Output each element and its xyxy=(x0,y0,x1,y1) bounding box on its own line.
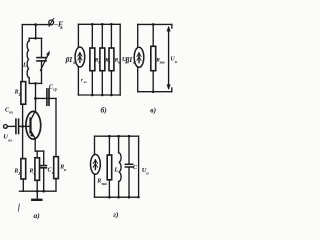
svg-text:г): г) xyxy=(113,210,119,219)
svg-text:вх: вх xyxy=(8,138,12,143)
svg-text:βI: βI xyxy=(125,55,134,64)
svg-text:э: э xyxy=(51,170,54,175)
svg-text:э: э xyxy=(32,171,35,176)
svg-text:в): в) xyxy=(150,106,156,115)
svg-text:βI: βI xyxy=(65,55,74,64)
svg-text:ср: ср xyxy=(53,86,57,91)
svg-text:н: н xyxy=(118,61,120,65)
svg-text:о: о xyxy=(98,61,100,65)
svg-text:экв: экв xyxy=(159,61,165,65)
svg-text:б): б) xyxy=(101,106,108,115)
svg-text:экв: экв xyxy=(100,181,107,186)
svg-text:L: L xyxy=(22,62,27,69)
svg-text:2: 2 xyxy=(17,171,20,176)
svg-text:L: L xyxy=(113,166,118,173)
svg-text:1: 1 xyxy=(18,92,20,97)
svg-text:а): а) xyxy=(34,211,41,220)
svg-text:вх: вх xyxy=(9,110,13,115)
